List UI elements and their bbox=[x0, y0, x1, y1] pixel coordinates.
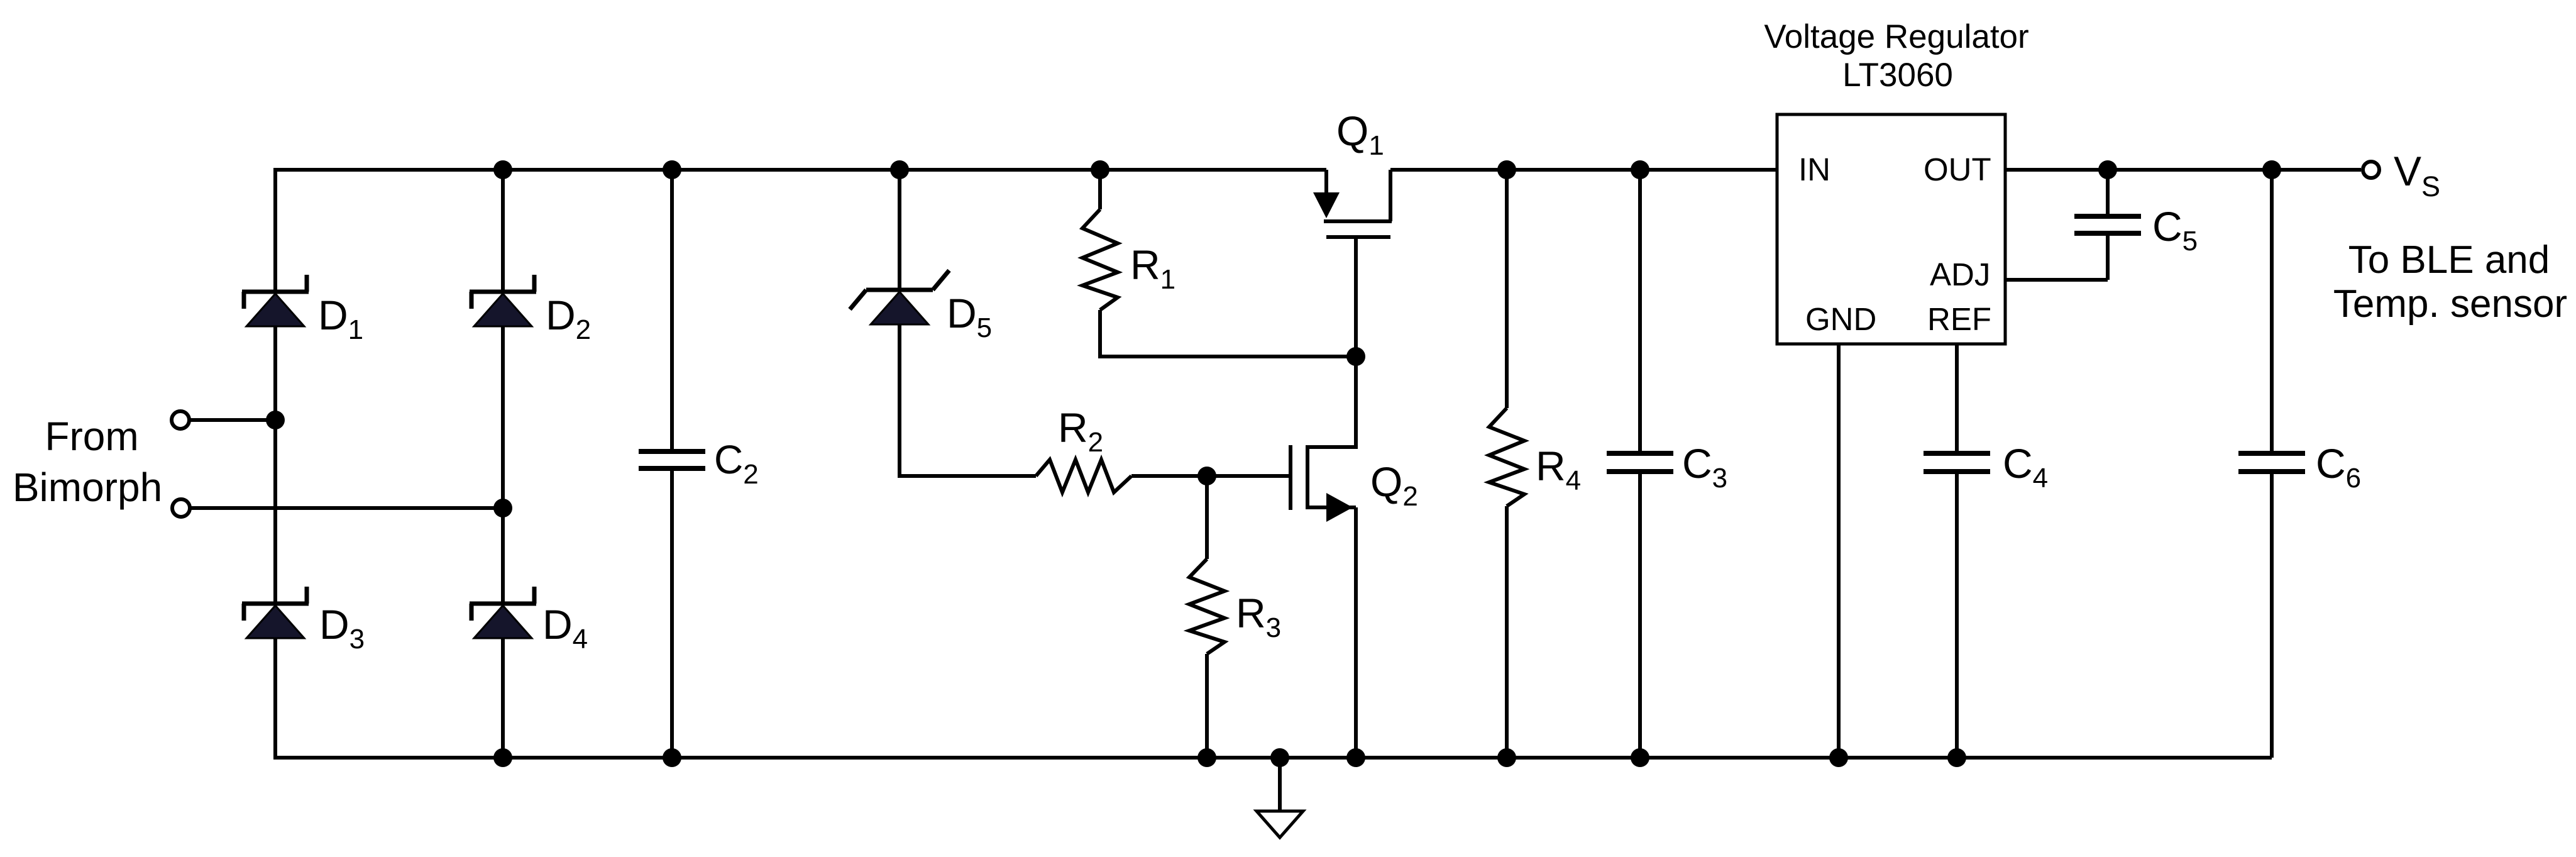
node: top rail C2 junction bbox=[663, 160, 681, 179]
svg-text:Voltage Regulator: Voltage Regulator bbox=[1764, 18, 2028, 55]
wire regulator REF pin to C4 bbox=[1955, 344, 1959, 452]
capacitor C6 bbox=[2238, 453, 2305, 472]
wire C5 top lead bbox=[2106, 170, 2110, 215]
capacitor C4 bbox=[1924, 453, 1990, 472]
wire C2 top lead bbox=[670, 170, 674, 450]
wire top rail left (bridge to Q1 source) bbox=[275, 170, 1326, 293]
wire R4 top lead bbox=[1505, 170, 1509, 408]
wire OUT rail bbox=[2005, 168, 2361, 172]
op-amp U1 regulator box LT3060 bbox=[1777, 114, 2005, 344]
wire D2 cathode from top rail bbox=[501, 170, 505, 293]
diode D3 bbox=[242, 587, 309, 638]
node: input1 D1-D3 junction bbox=[266, 411, 285, 429]
svg-text:Bimorph: Bimorph bbox=[13, 465, 162, 510]
terminal: input 1 bbox=[172, 411, 189, 429]
wire input terminal 1 to node A bbox=[190, 418, 275, 422]
terminal: input 2 bbox=[172, 499, 190, 517]
wire D5 cathode from top rail bbox=[898, 170, 901, 291]
node: bottom rail C2 junction bbox=[663, 748, 681, 767]
transistor Q2 (NMOS) bbox=[1291, 445, 1356, 758]
wire R2 right lead to Q2 gate bbox=[1131, 474, 1289, 478]
node: bottom rail C3 junction bbox=[1631, 748, 1649, 767]
svg-text:IN: IN bbox=[1798, 152, 1830, 187]
node: bottom rail Q2 junction bbox=[1346, 748, 1365, 767]
resistor R3 bbox=[1189, 559, 1225, 654]
node: top rail C3 junction bbox=[1631, 160, 1649, 179]
capacitor C5 bbox=[2074, 216, 2141, 233]
diode D4 bbox=[470, 587, 536, 638]
wire C6 bottom lead bbox=[2270, 473, 2274, 758]
wire R3 top lead bbox=[1205, 476, 1209, 559]
wire D1 anode to D3 cathode bbox=[273, 324, 277, 605]
wire C5 bottom lead bbox=[2106, 235, 2110, 280]
diode D2 bbox=[470, 275, 536, 326]
svg-text:LT3060: LT3060 bbox=[1842, 57, 1953, 94]
wire C4 bottom lead bbox=[1955, 473, 1959, 758]
node: OUT rail C5 junction bbox=[2098, 160, 2117, 179]
wire D5 anode to R2 left lead bbox=[900, 323, 1036, 476]
wire R1 bottom lead to Q1 gate node bbox=[1100, 310, 1356, 357]
ground bbox=[1257, 811, 1303, 838]
wire R3 bottom lead bbox=[1205, 654, 1209, 758]
node: top rail R1 junction bbox=[1091, 160, 1109, 179]
wire input terminal 2 to node B bbox=[191, 506, 503, 510]
node: bottom rail D4 junction bbox=[493, 748, 512, 767]
node: bottom rail C4 junction bbox=[1947, 748, 1966, 767]
wire D2 anode to D4 cathode bbox=[501, 324, 505, 605]
resistor R2 bbox=[1036, 460, 1131, 492]
zener diode D5 bbox=[850, 270, 949, 324]
svg-text:REF: REF bbox=[1927, 301, 1991, 337]
wire Q1 gate down to Q2 drain bbox=[1309, 239, 1356, 447]
wire C3 bottom lead bbox=[1638, 473, 1642, 758]
resistor R1 bbox=[1082, 209, 1118, 310]
node: bottom rail R3 junction bbox=[1197, 748, 1216, 767]
node: top rail D5 junction bbox=[890, 160, 909, 179]
wire C2 bottom lead bbox=[670, 470, 674, 758]
transistor Q1 (PMOS) bbox=[1313, 170, 1392, 237]
node: OUT rail C6 junction bbox=[2262, 160, 2281, 179]
wire top rail right (Q1 drain to regulator IN) bbox=[1390, 168, 1777, 172]
capacitor C3 bbox=[1607, 453, 1673, 472]
wire ground stub bbox=[1278, 758, 1282, 811]
capacitor C2 bbox=[639, 451, 705, 468]
wire R1 top lead bbox=[1098, 170, 1102, 209]
svg-text:From: From bbox=[45, 414, 138, 459]
svg-text:Temp. sensor: Temp. sensor bbox=[2333, 282, 2567, 326]
wire D4 anode to bottom rail bbox=[501, 637, 505, 758]
wire C6 top lead bbox=[2270, 170, 2274, 452]
node: R1 Q1-gate junction bbox=[1346, 347, 1365, 366]
terminal: Vs output bbox=[2363, 162, 2379, 178]
wire R4 bottom lead bbox=[1505, 506, 1509, 758]
resistor R4 bbox=[1489, 408, 1524, 506]
node: R2 R3 junction bbox=[1197, 467, 1216, 485]
diode D1 bbox=[242, 275, 309, 326]
svg-text:GND: GND bbox=[1805, 301, 1876, 337]
node: bottom rail ground junction bbox=[1270, 748, 1289, 767]
node: bottom rail GND pin junction bbox=[1829, 748, 1848, 767]
wire C3 top lead bbox=[1638, 170, 1642, 452]
wire regulator GND pin to bottom rail bbox=[1837, 344, 1841, 758]
svg-text:To BLE and: To BLE and bbox=[2348, 238, 2550, 282]
wire D3 anode to bottom rail and bottom rail to C6 bbox=[275, 637, 2272, 758]
node: input2 D2-D4 junction bbox=[493, 499, 512, 517]
node: top rail R4 junction bbox=[1497, 160, 1516, 179]
node: top rail D2 junction bbox=[493, 160, 512, 179]
wire ADJ to C5 bottom bbox=[2005, 278, 2108, 282]
svg-text:OUT: OUT bbox=[1924, 152, 1991, 187]
node: bottom rail R4 junction bbox=[1497, 748, 1516, 767]
svg-text:ADJ: ADJ bbox=[1930, 257, 1990, 292]
